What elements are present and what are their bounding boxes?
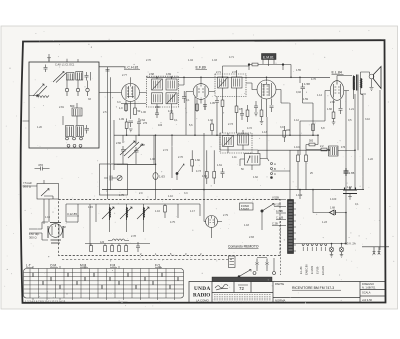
svg-text:1.22: 1.22 — [368, 158, 373, 161]
svg-text:2.82: 2.82 — [330, 101, 335, 104]
resistor R9 — [312, 124, 315, 131]
coil L3 box — [76, 72, 83, 81]
svg-text:DISEGNO: DISEGNO — [362, 282, 374, 286]
approvals header strip — [212, 277, 272, 282]
T1 coil c — [152, 93, 163, 104]
svg-text:7,5 AuF: 7,5 AuF — [23, 181, 32, 185]
svg-text:1.60: 1.60 — [195, 159, 200, 162]
wire relay drop — [273, 258, 275, 272]
coil L2 box — [67, 73, 75, 81]
phono pickup box — [37, 184, 59, 200]
svg-text:1.18: 1.18 — [244, 224, 249, 227]
svg-text:2.5: 2.5 — [103, 111, 107, 114]
svg-text:1.12: 1.12 — [294, 119, 299, 122]
detector tube V3 EABC80 — [257, 80, 276, 99]
T6 tap stubs — [294, 203, 297, 251]
T3 coil a — [223, 136, 234, 147]
resistor R10 cathode — [332, 112, 335, 119]
resistor R5 — [221, 100, 224, 107]
svg-text:0,1: 0,1 — [186, 99, 190, 102]
svg-text:LA COMO: LA COMO — [196, 299, 210, 303]
capacitor C22 — [137, 118, 141, 128]
pickup crystal symbol — [41, 180, 53, 199]
resistor R20 — [164, 206, 167, 213]
svg-text:V.12B: V.12B — [274, 203, 281, 207]
ground speaker — [370, 88, 374, 91]
svg-text:M.M.: M.M. — [80, 264, 87, 268]
svg-text:1.0: 1.0 — [119, 107, 123, 110]
ground antenna top — [47, 54, 51, 60]
tuning coil L1 adjust arrows — [53, 72, 66, 83]
padder capacitor C2 — [85, 72, 91, 81]
FM coil L12 — [144, 207, 145, 220]
FM coil L10 — [110, 207, 111, 220]
lamp contact a — [253, 272, 256, 275]
capacitor C10 — [215, 97, 219, 107]
heater filament V2 — [311, 244, 313, 246]
parte sub divider — [273, 297, 360, 299]
wire T5 to speaker — [354, 72, 370, 99]
capacitor C9 — [203, 105, 207, 111]
svg-text:2.73: 2.73 — [228, 123, 233, 126]
electrolytic C23 — [153, 173, 158, 180]
FONO switch label box — [240, 203, 254, 210]
svg-text:1.62: 1.62 — [253, 176, 258, 179]
wire y103 link — [121, 103, 146, 105]
svg-text:RICEVITORE BM FM 747-3: RICEVITORE BM FM 747-3 — [292, 286, 334, 290]
ground LP1 — [330, 252, 333, 257]
wire bus AVC y135 — [114, 134, 318, 136]
coil L5 box — [66, 126, 74, 137]
heater filament V6 — [325, 244, 327, 246]
dashed remote line — [62, 259, 232, 261]
wire right tall drops — [346, 90, 380, 247]
svg-text:300 Ω: 300 Ω — [29, 236, 37, 240]
svg-text:E.M.81: E.M.81 — [310, 265, 314, 274]
svg-text:A: A — [274, 162, 276, 166]
capacitor C32 on feed — [106, 70, 110, 72]
svg-text:3,9: 3,9 — [280, 126, 284, 129]
heater filament V4 — [302, 244, 304, 246]
svg-text:4.75: 4.75 — [170, 221, 175, 224]
svg-text:1.20: 1.20 — [37, 126, 42, 129]
resistor R3 — [170, 113, 173, 120]
svg-text:5,6: 5,6 — [189, 124, 193, 127]
svg-text:1.58: 1.58 — [304, 82, 310, 86]
resistor R7 top — [249, 64, 262, 66]
T1 coil d — [166, 93, 177, 104]
svg-text:2.81: 2.81 — [59, 106, 64, 109]
BFO capacitor C21 — [104, 176, 116, 181]
wire FM box nets — [66, 204, 222, 246]
T5 secondary — [361, 78, 362, 88]
svg-text:470: 470 — [38, 163, 43, 167]
resistor R16 — [205, 172, 208, 179]
S1 row rails — [24, 273, 184, 294]
title block — [189, 277, 386, 303]
svg-text:C: C — [274, 172, 276, 176]
ground V4 cathode — [332, 119, 336, 125]
heater filament V1 — [316, 244, 318, 246]
svg-text:1.61: 1.61 — [217, 164, 222, 167]
svg-text:100: 100 — [158, 124, 163, 127]
svg-text:270: 270 — [143, 122, 148, 125]
wire V3 leads — [252, 77, 281, 117]
wire DIN to PSU — [23, 121, 291, 171]
svg-text:EABC.80: EABC.80 — [305, 264, 309, 275]
resistor R26 — [283, 131, 286, 138]
svg-text:4.71: 4.71 — [229, 56, 234, 59]
svg-text:1.66: 1.66 — [327, 108, 332, 111]
ratio detector transformer T3 shield — [220, 133, 252, 153]
IF transformer T2 shield (dashed) — [215, 74, 246, 97]
resistor R15 — [191, 160, 194, 167]
S1 bottom stubs — [33, 298, 175, 300]
gang capacitor lower terminals — [67, 144, 70, 147]
lamp contact b — [273, 272, 276, 275]
IF transformer T1 shield (dashed) — [147, 76, 179, 107]
FM IF coupling coil L13 — [108, 239, 129, 241]
FM tuner shield box (dashed) — [59, 200, 281, 256]
svg-text:1.63: 1.63 — [159, 175, 165, 179]
wire V1 leads — [114, 77, 147, 119]
resistor R2 — [134, 108, 137, 115]
svg-text:E.M.81: E.M.81 — [263, 55, 274, 59]
svg-text:2.68: 2.68 — [149, 73, 154, 76]
wire oscillator nets — [117, 119, 154, 165]
svg-text:2.2: 2.2 — [320, 145, 324, 148]
svg-text:1.06: 1.06 — [141, 111, 146, 114]
S1 contact columns — [30, 269, 175, 299]
wire bus top y77 — [147, 76, 330, 78]
wire bus y189 — [102, 189, 364, 191]
S1 wires up — [33, 266, 160, 269]
svg-text:1 2 3 4 5 6 7 8 9: 1 2 3 4 5 6 7 8 9 10 11 12 13 14 15 — [25, 300, 66, 304]
svg-text:3.3: 3.3 — [184, 192, 188, 195]
svg-text:2.83: 2.83 — [249, 236, 254, 239]
ground V1 cathode — [129, 129, 133, 132]
svg-text:F.M.: F.M. — [110, 264, 116, 268]
IF pre box MF0 — [72, 108, 82, 116]
output socket pins — [373, 247, 381, 255]
svg-text:1.23: 1.23 — [322, 221, 327, 224]
svg-text:1.67: 1.67 — [347, 186, 352, 189]
resistor R11 — [306, 144, 318, 146]
svg-text:SCALA: SCALA — [362, 291, 371, 295]
svg-text:2.70: 2.70 — [146, 59, 151, 62]
svg-text:50,6 Ω: 50,6 Ω — [23, 185, 31, 189]
wire V4 leads — [325, 76, 352, 122]
node dot fono — [271, 177, 273, 179]
svg-text:N. 1.68/701: N. 1.68/701 — [362, 286, 376, 290]
resistor R23 — [111, 246, 114, 252]
wire long vertical feed left section — [108, 67, 111, 199]
svg-text:1.13: 1.13 — [262, 131, 267, 134]
BFO trimmer circle — [117, 175, 122, 180]
heater filament V5 — [320, 244, 322, 246]
svg-text:3.12.85: 3.12.85 — [67, 212, 77, 216]
svg-text:1.09: 1.09 — [119, 118, 124, 121]
svg-text:2.66: 2.66 — [116, 142, 121, 145]
capacitor C33 — [254, 101, 258, 112]
svg-text:0,02: 0,02 — [296, 91, 301, 94]
logo cell divider — [212, 282, 360, 304]
svg-text:NORMA: NORMA — [275, 299, 286, 303]
svg-text:72: 72 — [239, 286, 245, 291]
heater filament V3 — [307, 244, 309, 246]
pilot lamp LP1 — [329, 247, 334, 252]
svg-text:volt 3-56: volt 3-56 — [362, 298, 373, 302]
heater supply rail — [294, 243, 347, 245]
wire rectifier net — [300, 190, 346, 244]
svg-text:UNDA: UNDA — [194, 286, 211, 292]
switch contact S2a — [176, 172, 178, 174]
FM coil L11 — [127, 207, 128, 220]
FM trimmer arrows a — [102, 207, 114, 219]
svg-text:V.52B: V.52B — [272, 196, 279, 200]
svg-text:3.10: 3.10 — [365, 118, 370, 121]
wire MF0 leads — [63, 103, 77, 125]
ground LP2 — [340, 252, 343, 257]
T5 core — [357, 75, 358, 91]
signature scribble — [215, 284, 228, 290]
svg-text:Comando REMOTO: Comando REMOTO — [228, 245, 259, 249]
wire relay nets — [255, 258, 268, 272]
svg-text:3.3: 3.3 — [117, 101, 121, 104]
resistor R18 — [297, 155, 300, 162]
converter tube V1 ECH81 — [122, 84, 140, 102]
wire extras net links — [23, 65, 359, 187]
ground R8 — [260, 122, 264, 125]
svg-text:0,1: 0,1 — [174, 119, 178, 122]
capacitor C20 470pF — [35, 167, 50, 171]
svg-text:1.65: 1.65 — [349, 171, 355, 175]
svg-text:1.68: 1.68 — [330, 207, 335, 210]
BFO box — [100, 164, 128, 195]
svg-text:L·T: L·T — [26, 264, 31, 268]
svg-text:120: 120 — [100, 241, 105, 244]
resistor R14 — [125, 122, 128, 129]
svg-text:1.75: 1.75 — [119, 194, 124, 197]
T2 coil a — [218, 77, 229, 88]
capacitor C30 — [182, 91, 187, 103]
resistor R1 — [125, 104, 128, 111]
capacitor C1 — [44, 65, 48, 73]
dashed divider line — [280, 221, 282, 275]
wire T1 leads — [157, 77, 184, 113]
svg-text:1.21: 1.21 — [349, 108, 354, 111]
svg-text:0,1: 0,1 — [355, 203, 359, 206]
wire pot leads — [240, 159, 267, 171]
rectifier diode D1 — [330, 210, 336, 215]
svg-text:1.101: 1.101 — [294, 146, 301, 149]
wire top feed from AM box to converter — [49, 59, 124, 67]
pilot lamp LP2 — [339, 247, 344, 252]
svg-text:PARTE: PARTE — [275, 282, 284, 286]
output transformer T5 primary — [354, 76, 355, 91]
FM trimmer arrows b — [120, 207, 132, 219]
wire FM antenna leads — [29, 222, 48, 240]
AM tuner section box — [29, 62, 99, 148]
resistor R27 — [246, 110, 249, 117]
svg-text:2.76: 2.76 — [178, 156, 183, 159]
ground C33 — [254, 113, 258, 116]
svg-text:1.11: 1.11 — [232, 156, 237, 159]
svg-text:1.19: 1.19 — [45, 216, 50, 219]
resistor R25 — [125, 246, 128, 252]
wire y150 bus — [192, 133, 330, 200]
T2 coil b — [232, 77, 243, 88]
T3 coil b — [238, 134, 249, 145]
capacitor C12 — [270, 106, 274, 112]
capacitor C24 — [221, 168, 225, 178]
wire mains right — [362, 247, 389, 250]
ground electrolytic — [348, 194, 352, 200]
capacitor C15 electrolytic — [344, 168, 349, 176]
svg-text:2.0: 2.0 — [139, 192, 143, 195]
capacitor C26 — [136, 242, 140, 252]
power transformer T6 winding — [288, 200, 294, 254]
wire V2 leads — [186, 77, 215, 135]
DIN socket pins A B C — [271, 163, 273, 165]
capacitor C6 — [129, 121, 134, 127]
wire V3 plate net — [281, 90, 290, 136]
antenna coil L4 — [29, 96, 49, 98]
svg-text:1.15: 1.15 — [88, 206, 93, 209]
FM tube V5b — [206, 216, 218, 228]
capacitor C8 — [155, 109, 159, 118]
wire right column nets — [300, 77, 325, 155]
svg-text:500: 500 — [309, 140, 314, 143]
svg-text:ECH.81: ECH.81 — [321, 265, 325, 275]
svg-text:1.100: 1.100 — [330, 198, 337, 201]
svg-text:E.F.89: E.F.89 — [196, 66, 206, 70]
resistor R8 — [260, 110, 263, 117]
svg-text:2.74: 2.74 — [163, 149, 168, 152]
svg-text:F.O.: F.O. — [155, 264, 161, 268]
capacitor C31 — [240, 108, 244, 120]
switch arm to transformer — [261, 210, 263, 212]
svg-text:2.79: 2.79 — [223, 214, 228, 217]
svg-text:B: B — [274, 167, 276, 171]
ferrite antenna arrows — [33, 84, 47, 97]
resistor R17 — [213, 172, 216, 179]
svg-text:0,5: 0,5 — [348, 119, 352, 122]
wire choke net — [306, 135, 355, 150]
svg-text:2.72: 2.72 — [232, 71, 237, 74]
output tube V4 EL84 — [330, 81, 344, 101]
svg-text:E.L.84: E.L.84 — [332, 71, 342, 75]
svg-text:4.72: 4.72 — [247, 127, 252, 130]
S1 contact marks — [33, 273, 178, 289]
filter choke box — [329, 146, 339, 156]
svg-text:1.04: 1.04 — [188, 59, 193, 62]
svg-text:4.74B: 4.74B — [276, 209, 283, 213]
svg-text:800: 800 — [70, 104, 75, 108]
capacitor C14 — [339, 109, 343, 115]
resistor R4 — [196, 104, 199, 111]
capacitor C13 coupling — [301, 83, 306, 93]
svg-text:E.C.H.81: E.C.H.81 — [124, 66, 139, 70]
remote relay box — [229, 256, 236, 268]
svg-text:2.78: 2.78 — [131, 235, 136, 238]
node junction dots — [126, 77, 356, 245]
svg-text:C.2B: C.2B — [272, 222, 278, 226]
T1 coil b — [166, 79, 177, 90]
svg-text:1.05: 1.05 — [210, 102, 215, 105]
disegno cell rows — [360, 290, 386, 297]
svg-text:4.70: 4.70 — [168, 110, 173, 113]
svg-text:2.67: 2.67 — [140, 144, 145, 147]
svg-text:O.M.: O.M. — [50, 264, 57, 268]
svg-text:1.17: 1.17 — [190, 210, 195, 213]
resistor R12 — [318, 149, 330, 151]
svg-text:5 TAST: 5 TAST — [241, 208, 249, 211]
resistor R28 — [211, 124, 214, 131]
relay contact pair a — [256, 259, 259, 269]
svg-text:2.80: 2.80 — [155, 106, 160, 109]
wire top right net — [249, 65, 291, 78]
electrolytic can C16 C17 — [343, 187, 357, 194]
fine print lines — [214, 295, 271, 302]
oscillator trimmer caps — [121, 146, 126, 155]
T1 coil a — [152, 79, 163, 90]
svg-text:1.64: 1.64 — [202, 175, 207, 178]
svg-text:4.76: 4.76 — [311, 78, 316, 81]
svg-text:C.12B: C.12B — [276, 216, 283, 220]
terminal row gang capacitor — [67, 80, 88, 88]
svg-text:4.73: 4.73 — [196, 170, 201, 173]
wire phono to FM tuner — [44, 199, 49, 224]
keyboard switch S1 frame — [24, 269, 184, 299]
IF amp tube V2 EF89 — [193, 84, 209, 100]
heater return dots — [303, 247, 326, 251]
svg-text:1.07: 1.07 — [208, 119, 213, 122]
remote switch arrow — [239, 270, 251, 277]
approvals row dividers — [212, 282, 273, 293]
resistor R22 — [104, 246, 107, 252]
resistor R6 — [235, 106, 238, 113]
label box E.M.81 magic eye — [262, 54, 277, 60]
svg-text:2.71: 2.71 — [216, 71, 221, 74]
oscillator coil cluster arrows — [120, 141, 139, 156]
title block outer — [189, 282, 386, 304]
trimmer capacitor C5 — [85, 125, 90, 134]
svg-text:4.69: 4.69 — [166, 73, 171, 76]
svg-text:170: 170 — [341, 146, 346, 149]
FM tube V5 ECC85 — [49, 224, 63, 238]
svg-text:1.59: 1.59 — [303, 98, 308, 101]
speaker LS1 — [369, 74, 374, 79]
wire tap labels net — [271, 200, 286, 226]
wire mid verticals — [156, 97, 237, 222]
terminal dots under L5 L6 — [66, 137, 69, 140]
resistor R19 — [305, 155, 308, 162]
wire bus y164 — [114, 120, 155, 170]
node dot AM in — [37, 95, 39, 97]
svg-text:1.55: 1.55 — [296, 69, 301, 72]
svg-text:6,8: 6,8 — [321, 127, 325, 130]
FM trimmer arrows c — [137, 207, 149, 219]
svg-text:C.AV. L1 C1 OC1: C.AV. L1 C1 OC1 — [55, 64, 75, 67]
svg-text:1.03: 1.03 — [212, 59, 217, 62]
svg-text:1.16: 1.16 — [155, 210, 160, 213]
svg-text:2.77: 2.77 — [122, 74, 127, 77]
svg-text:1.102: 1.102 — [296, 194, 303, 197]
wire T2 leads — [223, 66, 253, 106]
relay contact pair b — [266, 259, 269, 269]
wire FM bottom rail — [85, 244, 150, 246]
